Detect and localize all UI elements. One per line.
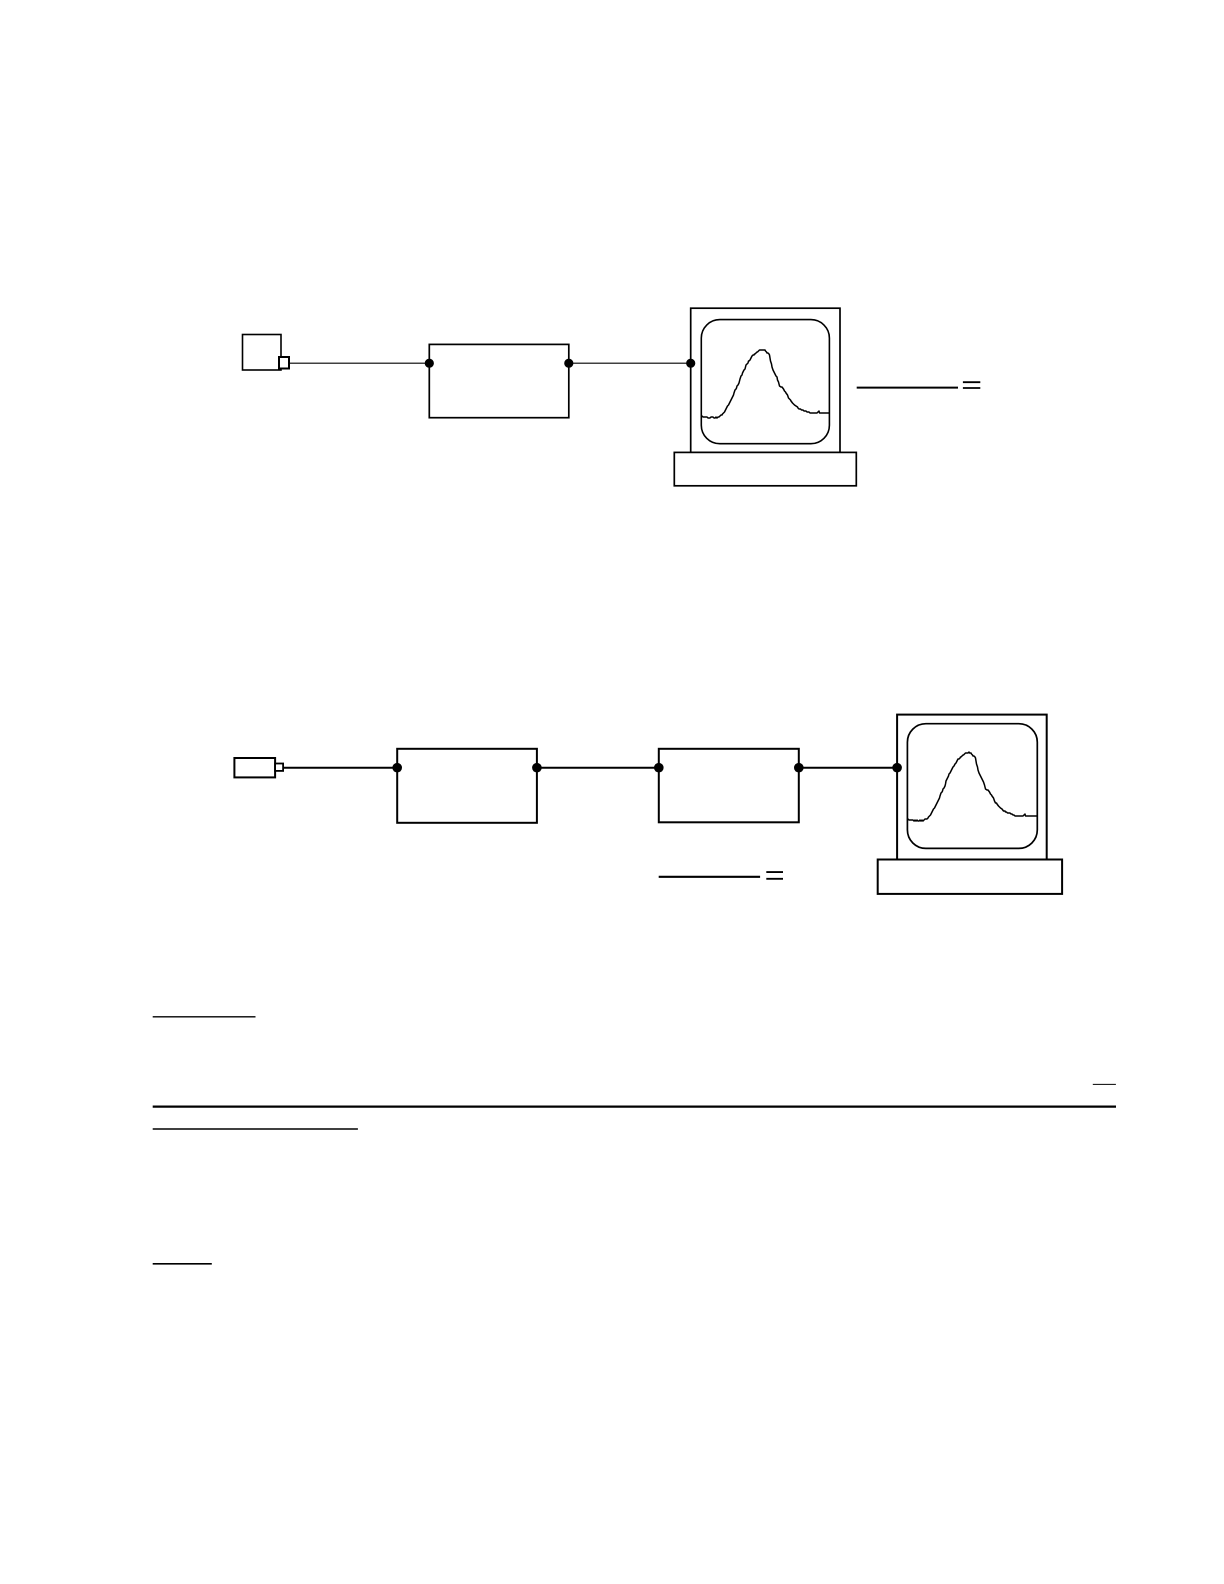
MCA1 screen	[701, 320, 829, 444]
wire DET1 to AMP1	[289, 362, 429, 364]
detector DET2	[234, 758, 275, 777]
node SCA2 input	[654, 763, 664, 773]
detector DET1 output connector	[279, 357, 289, 369]
analyzer box SCA2	[659, 749, 799, 823]
equals sign diagram 2	[766, 872, 783, 879]
node AMP2 input	[392, 763, 402, 773]
heading underline (question 3)	[153, 1263, 212, 1265]
blank answer line for diagram 1	[857, 387, 958, 389]
node AMP1 input	[425, 359, 434, 368]
blank answer line for diagram 2	[659, 876, 760, 878]
wire SCA2 to MCA2	[799, 767, 897, 769]
node MCA1 input	[686, 359, 695, 368]
detector DET1	[243, 335, 282, 371]
horizontal rule	[153, 1105, 1116, 1107]
MCA display MCA2 cabinet	[897, 715, 1047, 860]
equals sign diagram 1	[963, 382, 980, 388]
short underline upper right	[1093, 1083, 1116, 1085]
node MCA2 input	[892, 763, 902, 773]
MCA2 base	[878, 860, 1062, 894]
MCA1 spectrum trace	[702, 350, 830, 418]
amplifier box AMP1	[429, 344, 569, 417]
node SCA2 output	[794, 763, 804, 773]
amplifier box AMP2	[397, 749, 537, 823]
wire AMP2 to SCA2	[537, 767, 659, 769]
heading underline (question 1)	[153, 1016, 256, 1018]
node AMP1 output	[564, 359, 573, 368]
wire AMP1 to MCA1	[569, 362, 691, 364]
node AMP2 output	[532, 763, 542, 773]
heading underline (question 2)	[153, 1128, 358, 1130]
MCA2 screen	[907, 724, 1037, 849]
MCA1 base	[674, 452, 856, 485]
MCA display MCA1 cabinet	[691, 308, 840, 452]
detector DET2 output connector	[275, 764, 283, 771]
wire DET2 to AMP2	[283, 767, 397, 769]
MCA2 spectrum trace	[908, 752, 1038, 821]
